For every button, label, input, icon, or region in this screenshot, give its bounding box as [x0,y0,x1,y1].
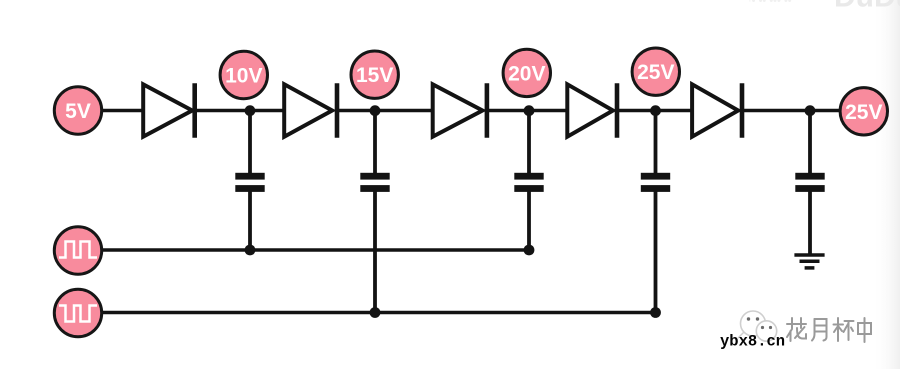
junction node at D4/D5 (C4 top) [650,105,661,116]
watermark text hua (花) [787,318,807,342]
faint cropped watermark text top right [748,0,900,14]
node label 25V [632,48,679,95]
ground [794,255,824,268]
right edge shading [872,0,900,369]
wire W5 (D4 cathode to D5 anode) [617,109,694,113]
diode D1 [143,83,195,138]
svg-text:DuDu: DuDu [834,0,900,14]
clock source CLK1 [54,227,101,274]
node label 15V [351,51,398,98]
watermark text bei (杯) [834,318,855,342]
capacitor C2 [360,111,389,313]
svg-text:25V: 25V [637,61,674,84]
watermark text zhong (中) [858,318,872,343]
junction C4 bottom on phase2 [650,307,661,318]
junction C1 bottom on phase1 [245,245,256,256]
capacitor C5 (output filter) [795,111,824,256]
capacitor C1 [235,111,264,251]
svg-text:15V: 15V [356,64,393,87]
junction node at output (C5 top) [805,105,816,116]
diode D3 [433,83,487,138]
watermark wechat logo [738,311,777,341]
wire W4 (D3 cathode to D4 anode) [487,109,569,113]
node 5V input source [54,87,101,134]
junction node at D1/D2 (C1 top) [245,105,256,116]
capacitor C3 [514,111,543,251]
diode D5 [692,83,742,138]
svg-text:20V: 20V [508,62,545,85]
diode D4 [567,83,617,138]
wire W2 (D1 cathode to D2 anode) [195,109,286,113]
capacitor C4 [641,111,670,313]
node 25V output [840,88,887,135]
svg-text:ybx8.cn: ybx8.cn [720,333,785,351]
svg-text:10V: 10V [225,65,262,88]
wire W3 (D2 cathode to D3 anode) [337,109,434,113]
wire W6 (D5 cathode to 25V output) [742,109,841,113]
node label 10V [220,51,267,98]
svg-text:25V: 25V [845,101,882,124]
svg-text:·• •• ••• ••: ·• •• ••• •• [748,0,792,7]
clock source CLK2 [54,289,101,336]
watermark text yue (月) [812,319,828,342]
junction C2 bottom on phase2 [370,307,381,318]
node label 20V [503,49,550,96]
junction C3 bottom on phase1 [524,245,535,256]
junction node at D3/D4 (C3 top) [524,105,535,116]
diode D2 [284,83,337,138]
svg-text:5V: 5V [65,100,91,123]
junction node at D2/D3 (C2 top) [370,105,381,116]
wire phase1 (clock 1 bus) [102,248,529,252]
wire phase2 (clock 2 bus) [102,311,656,315]
wire W1 (5V source to D1 anode) [102,109,145,113]
